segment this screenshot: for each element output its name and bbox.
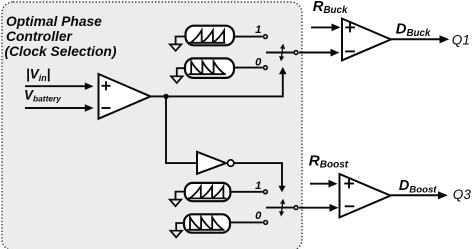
wire Vbattery input arrow to U1 - bbox=[25, 104, 94, 111]
wire OSC1 to contact 1 of SW1 bbox=[234, 36, 263, 38]
svg-text:RBuck: RBuck bbox=[313, 0, 348, 16]
svg-text:(Clock Selection): (Clock Selection) bbox=[5, 44, 117, 59]
node SW1 contact 1 bbox=[264, 35, 268, 39]
switch SW2 (clock selector, boost) bbox=[266, 198, 294, 216]
wire U2 output to SW2 control (down arrow) bbox=[235, 163, 286, 192]
ramp generator OSC4 (falling sawtooth clock) bbox=[184, 214, 230, 232]
svg-text:1: 1 bbox=[255, 24, 261, 36]
node U1 output junction bbox=[163, 94, 168, 99]
ground for OSC1 bbox=[170, 37, 186, 51]
node SW1 contact 0 bbox=[264, 66, 268, 70]
wire SW1 common to U3 - input bbox=[299, 49, 340, 57]
node SW2 contact 0 bbox=[264, 221, 268, 225]
ground for OSC3 bbox=[170, 192, 185, 207]
node SW2 common bbox=[294, 206, 298, 210]
node SW1 common bbox=[294, 51, 298, 55]
wire OSC2 to contact 0 of SW1 bbox=[234, 67, 263, 69]
svg-text:Q1: Q1 bbox=[452, 33, 470, 48]
ground for OSC2 bbox=[171, 68, 185, 83]
svg-text:1: 1 bbox=[255, 180, 261, 192]
wire U1 output bbox=[151, 95, 167, 97]
inverter U2 bbox=[197, 152, 234, 174]
title label: Optimal Phase Controller (Clock Selection) bbox=[5, 14, 117, 59]
svg-text:0: 0 bbox=[255, 210, 262, 222]
svg-text:Controller: Controller bbox=[6, 29, 73, 44]
ramp generator OSC1 (rising sawtooth clock) bbox=[186, 26, 235, 46]
wire SW2 common to U4 - input bbox=[299, 204, 339, 212]
svg-text:Q3: Q3 bbox=[453, 187, 472, 202]
svg-text:|Vin|: |Vin| bbox=[26, 67, 50, 83]
svg-text:RBoost: RBoost bbox=[309, 152, 349, 170]
op-amp U3 (buck PWM comparator) bbox=[342, 19, 391, 61]
switch SW1 (clock selector, buck) bbox=[266, 43, 294, 61]
node SW2 contact 1 bbox=[264, 190, 268, 194]
svg-text:DBoost: DBoost bbox=[399, 178, 437, 195]
wire OSC3 to contact 1 of SW2 bbox=[230, 191, 262, 193]
svg-text:DBuck: DBuck bbox=[396, 21, 431, 39]
svg-text:0: 0 bbox=[255, 56, 262, 68]
wire U4 output DBoost to Q3 bbox=[391, 191, 448, 199]
op-amp U1 (phase comparator) bbox=[99, 74, 151, 119]
wire RBuck arrow to U3 + input bbox=[311, 24, 341, 32]
svg-text:Optimal Phase: Optimal Phase bbox=[6, 14, 102, 29]
wire U1 output to inverter U2 bbox=[166, 96, 197, 163]
wire OSC4 to contact 0 of SW2 bbox=[230, 221, 263, 223]
ramp generator OSC3 (rising sawtooth clock) bbox=[185, 183, 231, 201]
ground for OSC4 bbox=[170, 223, 184, 237]
wire U1 output to SW1 control (up arrow) bbox=[166, 67, 287, 96]
op-amp U4 (boost PWM comparator) bbox=[340, 174, 391, 217]
ramp generator OSC2 (falling sawtooth clock) bbox=[185, 58, 234, 78]
wire RBoost arrow to U4 + input bbox=[310, 180, 338, 188]
wire |Vin| input arrow to U1 + bbox=[25, 83, 94, 90]
wire U3 output DBuck to Q1 bbox=[391, 35, 449, 43]
controller block (dashed region) bbox=[2, 2, 302, 249]
